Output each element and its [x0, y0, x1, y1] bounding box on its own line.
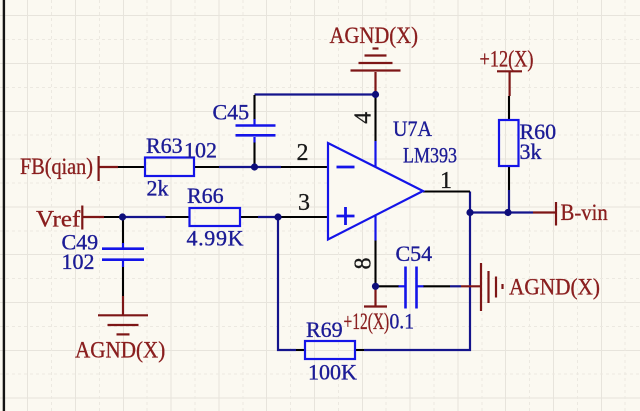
svg-text:102: 102 [62, 249, 95, 274]
svg-text:102: 102 [184, 138, 217, 163]
svg-text:+12(X): +12(X) [344, 309, 390, 334]
svg-text:C54: C54 [396, 241, 433, 266]
svg-text:AGND(X): AGND(X) [330, 23, 419, 48]
svg-text:3k: 3k [520, 139, 542, 164]
svg-text:100K: 100K [308, 360, 357, 385]
svg-text:1: 1 [440, 168, 452, 194]
svg-text:FB(qian): FB(qian) [20, 154, 93, 179]
svg-text:0.1: 0.1 [390, 308, 415, 333]
svg-text:Vref: Vref [36, 206, 81, 231]
svg-text:R63: R63 [146, 133, 183, 158]
svg-text:AGND(X): AGND(X) [75, 337, 165, 362]
svg-text:2k: 2k [147, 176, 169, 201]
svg-text:4: 4 [350, 112, 376, 124]
svg-text:AGND(X): AGND(X) [509, 275, 600, 300]
svg-text:R69: R69 [306, 317, 343, 342]
svg-text:R66: R66 [187, 183, 224, 208]
svg-text:4.99K: 4.99K [187, 226, 244, 251]
svg-text:U7A: U7A [393, 116, 432, 141]
svg-text:LM393: LM393 [403, 143, 457, 168]
svg-text:B-vin: B-vin [561, 200, 609, 225]
svg-text:C45: C45 [213, 100, 250, 125]
svg-text:+12(X): +12(X) [480, 47, 534, 72]
svg-text:3: 3 [298, 190, 310, 216]
svg-text:8: 8 [350, 258, 376, 270]
svg-text:2: 2 [297, 140, 309, 166]
